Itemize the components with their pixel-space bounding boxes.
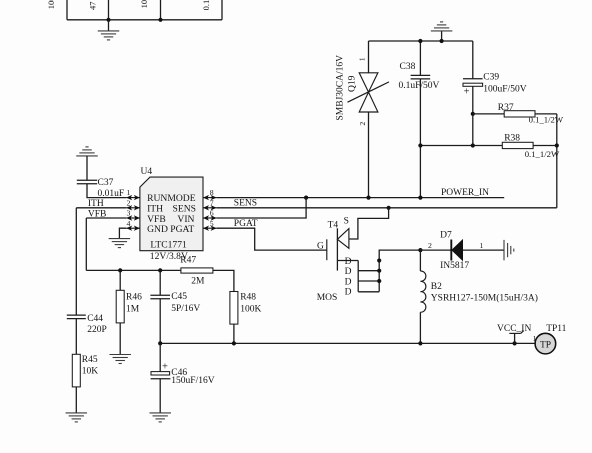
svg-text:G: G [317,241,324,251]
svg-text:4: 4 [127,219,131,228]
wire ITH vertical down [75,208,77,315]
transistor Q19 (TVS) upper triangle [359,73,378,92]
pin 2 arrow [126,205,140,210]
svg-text:YSRH127-150M(15uH/3A): YSRH127-150M(15uH/3A) [431,292,538,303]
junction at (420.4,250.1) [418,248,422,252]
svg-text:1M: 1M [126,305,140,315]
junction at (160.5,19.8) [158,18,162,22]
svg-text:IN5817: IN5817 [440,261,469,271]
svg-text:2: 2 [127,198,131,207]
svg-text:C39: C39 [483,72,499,82]
op-amp U4 body [140,177,203,251]
pin 3 arrow [126,215,140,220]
resistor R45 [66,354,99,422]
svg-text:SENS: SENS [234,198,257,208]
wire VCC_IN rail [160,342,535,344]
svg-text:0.1uF/50V: 0.1uF/50V [399,81,440,91]
wire R38 left lead [420,145,502,147]
wire C39 vertical to R38 row [472,114,474,146]
svg-text:U4: U4 [141,167,153,177]
svg-text:Q19: Q19 [348,75,358,92]
svg-text:5: 5 [210,219,214,228]
wire C39 top lead [472,41,474,79]
svg-text:5P/16V: 5P/16V [171,304,200,314]
wire D7 right lead [463,249,504,251]
D7 triangle [452,240,463,261]
svg-text:SMBJ30CA/16V: SMBJ30CA/16V [336,55,346,121]
junction at (379.2,260.5) [377,258,381,262]
TVS Q19 [336,41,390,198]
pin 1 arrow [126,195,140,200]
svg-text:TP11: TP11 [546,324,566,334]
capacitor C38 [399,39,440,198]
junction at (233.9,343.4) [232,341,236,345]
svg-text:2M: 2M [191,277,205,287]
wire R46 top lead [119,270,121,290]
wire Q19 bottom lead [368,112,370,198]
C46 top plate (box) [151,372,170,375]
svg-text:7: 7 [210,198,214,207]
pin 8 arrow [203,195,217,200]
svg-text:C38: C38 [400,62,416,72]
svg-text:ITH: ITH [88,199,104,209]
svg-text:0.1_1/2W: 0.1_1/2W [529,115,564,125]
wire ITH (pin2) [76,207,126,209]
junction at (472.8,113.9) [471,112,475,116]
svg-text:C44: C44 [87,314,103,324]
wire drain stub D3 [358,280,379,282]
svg-text:TP: TP [540,340,551,350]
wire R45 bottom lead [75,387,77,413]
svg-text:+: + [464,87,470,98]
R37 body [504,111,535,117]
wire PGAT (pin5) [217,228,327,250]
T4 gate bar [326,239,328,260]
C46 bottom plate [151,378,171,380]
junction at (306.1,197.6) [304,196,308,200]
resistor R47 [158,256,234,292]
R38 body [502,142,533,148]
R45 body [72,354,80,387]
pin 5 arrow [203,226,217,231]
C39 bottom plate (box) [463,83,483,86]
svg-text:S: S [344,217,349,227]
net flag VCC_IN [497,324,531,343]
svg-text:PGAT: PGAT [170,224,194,235]
ground (U4 GND pin) [109,239,130,248]
Q19 diagonal bar [348,82,390,102]
wire R46 bottom lead [119,323,121,355]
resistor R46 [109,268,142,363]
resistor R48 [230,292,262,344]
svg-text:GND: GND [147,224,168,235]
C45 plates [150,294,170,296]
svg-text:1: 1 [533,334,537,343]
wire gnd to C37 [86,156,88,180]
junction at (160.2,270.4) [158,268,162,272]
svg-text:10: 10 [139,0,149,8]
svg-text:2: 2 [428,241,432,250]
R46 body [116,290,124,323]
junction at (472.8,145.5) [471,143,475,147]
svg-text:2: 2 [358,122,367,126]
svg-text:VCC_IN: VCC_IN [497,324,531,334]
svg-text:D7: D7 [440,230,452,240]
wire C44 bottom lead [75,319,77,355]
svg-text:8: 8 [210,188,214,197]
svg-text:1: 1 [127,188,131,197]
capacitor C45 [150,270,200,343]
svg-text:D: D [345,257,352,267]
wire stub up at x=108.5 [108,0,110,20]
wire R37 left lead [473,113,504,115]
junction at (379.2,270.7) [377,269,381,273]
TP11 circle [535,333,556,354]
earth symbol (right of D7) [504,240,514,260]
svg-text:47: 47 [87,2,97,11]
svg-text:+: + [162,362,168,373]
wire right-edge vertical (sense) [556,114,558,208]
transistor Q19 (TVS) lower triangle [359,92,378,112]
wire drain stub D2 [358,270,379,272]
svg-text:3: 3 [127,209,131,218]
svg-text:B2: B2 [431,282,442,292]
svg-text:R48: R48 [240,293,256,303]
wire VFB (pin3) [86,217,126,219]
wire C39 bottom lead [472,86,474,114]
wire input gnd bus [369,40,473,42]
wire drain stub D4 [358,291,379,293]
svg-text:100K: 100K [240,305,261,315]
junction at (420.4,197.6) [418,196,422,200]
ground (above C38 bus, pointing up) [441,31,443,41]
wire GND (pin4) to ground [119,228,126,238]
svg-text:VFB: VFB [88,209,106,219]
junction at (160.2,343.4) [158,341,162,345]
wire top-left horizontal bus [67,19,222,21]
wire VCC_IN stem [514,333,516,343]
pin 4 arrow [126,226,140,231]
wire VFB row [86,269,181,271]
wire R37 right lead [535,113,557,115]
capacitor C46 (polarized) [149,343,214,422]
VCC_IN bar [509,332,520,334]
junction at (420.4,145.5) [418,143,422,147]
R47 body [181,268,213,273]
wire C45 bottom lead [159,299,161,344]
wire VIN (pin6) [217,198,307,218]
C44 plates [67,314,86,316]
svg-text:PGAT: PGAT [234,219,258,229]
test point TP11 [533,324,567,354]
wire B2 bottom lead [419,312,421,343]
svg-text:1: 1 [480,241,484,250]
wire drain bus right [379,250,420,292]
C39 top plate [463,78,483,80]
wire stub up at x=160.5 [160,0,162,20]
wire C46 bottom lead [159,379,161,413]
VCC_IN tick [521,331,524,334]
wire R38 right lead [533,145,557,147]
svg-text:100: 100 [46,0,56,9]
svg-text:10K: 10K [82,367,99,377]
T4 channel bar [336,228,338,270]
capacitor C44 [67,314,107,355]
resistor R38 [418,114,560,159]
junction at (379.2,281) [377,279,381,283]
ground (R45) [66,413,88,422]
junction at (420.4,343.4) [418,341,422,345]
wire R47 right lead [213,270,234,291]
R48 body [230,292,238,325]
B2 coil [420,271,425,312]
wire C38 top lead [419,41,421,75]
svg-text:0.1_1/2W: 0.1_1/2W [525,149,560,159]
wire R48 bottom lead [233,324,235,343]
ground (R46) [109,355,131,364]
pin 6 arrow [203,215,217,220]
svg-text:R46: R46 [126,292,142,302]
junction at (420.4,41) [418,39,422,43]
junction at (368.5,197.6) [366,196,370,200]
wire SENS row (pin7) [217,207,557,209]
svg-text:C37: C37 [98,178,114,188]
junction at (388.6,207.8) [387,206,391,210]
svg-text:220P: 220P [87,325,107,335]
svg-text:6: 6 [210,209,214,218]
wire D7 left lead [420,249,451,251]
wire stub up at x=222 [221,0,223,20]
ground (C46) [149,413,171,422]
wire Q19 top lead [368,41,370,73]
svg-text:100uF/50V: 100uF/50V [483,85,526,95]
junction at (514.6,343.4) [513,341,517,345]
junction at (441.6,41) [440,39,444,43]
svg-text:D: D [345,267,352,277]
svg-text:LTC1771: LTC1771 [150,240,187,251]
svg-text:C45: C45 [171,292,187,302]
pin 7 arrow [203,205,217,210]
resistor R37 [471,103,564,124]
svg-text:RUNMODE: RUNMODE [147,193,196,204]
svg-text:D: D [345,277,352,287]
wire VFB vertical down [85,218,87,270]
junction at (556.8,145.5) [555,143,559,147]
capacitor C39 (polarized) [463,41,527,114]
ground (above C37, flipped) [76,147,98,156]
wire stub up at x=67 [66,0,68,20]
svg-text:R47: R47 [180,256,196,266]
svg-text:MOS: MOS [317,293,338,303]
C38 plates [411,74,431,76]
svg-text:D: D [345,288,352,298]
wire C37 to pin1 [87,184,126,198]
svg-text:1: 1 [357,57,366,61]
junction at (108.5,19.8) [106,18,110,22]
svg-text:0.01uF: 0.01uF [98,189,125,199]
ground (top-left) [108,20,110,31]
svg-text:0.1: 0.1 [201,0,211,10]
wire drain bus left [357,261,359,292]
svg-text:R38: R38 [504,134,520,144]
T4 arrow triangle [337,229,349,249]
svg-text:R37: R37 [498,103,514,113]
svg-text:R45: R45 [82,355,98,365]
wire C38 bottom lead [419,79,421,198]
wire C46 top lead [159,343,161,371]
capacitor C37 [77,179,97,181]
wire MODE/pin8 row (POWER_IN net) [217,197,505,199]
D7 cathode bar [450,240,452,261]
wire B2 top lead [419,250,421,271]
svg-text:POWER_IN: POWER_IN [441,188,489,198]
wire T4 source to SENS row [349,208,389,239]
svg-text:150uF/16V: 150uF/16V [171,376,214,386]
wire C45 top lead [159,270,161,295]
junction at (120.2,270.4) [118,268,122,272]
wire drain stub D1 [337,260,358,262]
